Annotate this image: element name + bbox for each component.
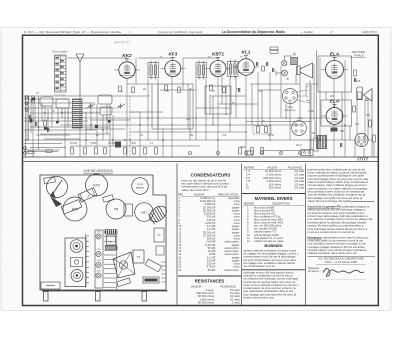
label board	[143, 277, 159, 283]
svg-text:C28: C28	[366, 115, 371, 117]
trimmer A-cal	[132, 178, 149, 195]
svg-text:Prise: Prise	[297, 118, 303, 121]
svg-text:CONDENSATEURS: CONDENSATEURS	[191, 173, 231, 178]
filter cap can 1	[65, 238, 86, 287]
svg-text:electrochim.: electrochim.	[224, 268, 239, 272]
switch S1 contact table (Commutateur)	[52, 50, 68, 97]
terminal ANT	[25, 96, 28, 99]
small component blobs left	[24, 84, 226, 154]
svg-text:HP: HP	[286, 79, 290, 81]
IF transformer T3	[228, 60, 239, 79]
resistor R2	[32, 96, 35, 102]
wire speaker feed	[314, 50, 317, 135]
svg-text:valeur fils par bobinage décou: valeur fils par bobinage découplag	[308, 199, 352, 203]
wire lamp feed	[276, 56, 292, 76]
loudspeaker frame below	[113, 252, 135, 278]
svg-text:1408-CH-5: 1408-CH-5	[362, 30, 377, 34]
svg-text:Commutateur: Commutateur	[52, 50, 68, 54]
rectifier tube V7	[355, 133, 368, 146]
chassis outline	[40, 175, 166, 290]
side ticks	[161, 262, 166, 282]
terminal strip TS2	[86, 234, 90, 288]
coil L4	[100, 107, 112, 115]
svg-text:Imprimerie CHARLES, Argenteuil: Imprimerie CHARLES, Argenteuil	[158, 30, 203, 34]
svg-text:MATERIEL DIVERS: MATERIEL DIVERS	[255, 196, 293, 201]
svg-text:— Cahier: — Cahier	[300, 30, 313, 34]
svg-text:R10: R10	[236, 89, 241, 91]
band switch S2 wafer block	[73, 99, 83, 128]
ground earth symbol	[358, 148, 370, 161]
svg-text:Signature: Signature	[308, 266, 320, 270]
svg-text:C22: C22	[355, 124, 360, 126]
svg-text:VUE DE DESSOUS: VUE DE DESSOUS	[83, 169, 113, 173]
wire bus chassis/B-	[24, 156, 378, 158]
dark pointer	[50, 196, 62, 207]
column divider 2	[241, 164, 243, 306]
svg-text:T3: T3	[137, 255, 141, 259]
tube KBT1	[206, 52, 231, 77]
terminal PU2	[24, 152, 27, 155]
AVC dashed line	[129, 96, 131, 157]
resistor R23	[353, 106, 356, 112]
coil can rotated 2	[61, 200, 82, 215]
svg-text:10: 10	[246, 186, 250, 190]
wire routing y132	[130, 131, 246, 133]
svg-text:SECT.: SECT.	[296, 145, 303, 147]
svg-text:REPERE: REPERE	[244, 203, 255, 206]
dial lamp LP2	[282, 70, 288, 76]
wire routing y125	[60, 124, 300, 126]
coupling capacitor C15	[255, 62, 257, 66]
shield box detector	[205, 86, 231, 114]
svg-text:VALEUR: VALEUR	[191, 285, 202, 289]
resistor value rows	[196, 288, 239, 304]
svg-text:valeur des écran fils h: valeur des écran fils h	[182, 188, 210, 192]
tube KF3	[160, 52, 185, 77]
paragraph end rule	[352, 200, 374, 202]
verification block	[308, 256, 376, 258]
column divider 3	[305, 164, 307, 306]
svg-text:500M: 500M	[268, 135, 274, 137]
terminal CADRE	[25, 109, 28, 112]
svg-text:gri.: gri.	[306, 89, 309, 92]
svg-text:du secrét. :: du secrét. :	[308, 269, 321, 273]
svg-text:Paris — le 15 Janvier 1938: Paris — le 15 Janvier 1938	[325, 260, 357, 264]
rule	[242, 193, 305, 195]
excitation coil HP2	[357, 87, 363, 100]
tube KK2	[114, 53, 139, 78]
svg-text:sur condensateur sont éc: sur condensateur sont éc	[244, 264, 276, 268]
svg-text:500 ohms: 500 ohms	[269, 186, 282, 190]
materiel rows	[247, 205, 284, 243]
svg-text:La Documentation du Dépanneur-: La Documentation du Dépanneur-Radio	[222, 30, 285, 34]
svg-text:1/2 watt: 1/2 watt	[294, 186, 304, 190]
capacitor block hatched 2	[106, 246, 118, 250]
capacitor C30	[339, 143, 341, 147]
svg-text:KF3: KF3	[168, 52, 177, 57]
antenna	[76, 54, 84, 96]
capacitor C1	[28, 115, 30, 119]
resistor R21	[373, 135, 376, 142]
bypass capacitor C18	[237, 88, 239, 92]
svg-text:SUPER 57: SUPER 57	[114, 41, 131, 45]
svg-text:DESCRIPTION: DESCRIPTION	[272, 203, 289, 206]
capacitor C11 block	[246, 151, 253, 155]
base protrusion left	[41, 282, 60, 289]
svg-text:tension haut-parleur que: tension haut-parleur que	[244, 295, 275, 299]
loudspeaker HP2	[364, 89, 373, 102]
socket KF3 below	[86, 174, 108, 196]
wire routing y146	[70, 145, 200, 147]
svg-text:KL1: KL1	[242, 50, 251, 55]
rule	[242, 269, 305, 271]
svg-text:20 000 ohms: 20 000 ohms	[198, 300, 215, 304]
power transformer TR	[317, 136, 327, 149]
tube KL1	[233, 50, 259, 76]
wire AVC line	[24, 95, 150, 97]
side rect B	[156, 246, 164, 255]
svg-text:10MF: 10MF	[240, 147, 246, 149]
variable capacitor CV1	[86, 104, 95, 109]
svg-text:R15: R15	[330, 96, 335, 98]
mounting strip with grommets	[95, 230, 103, 288]
wire mesh left section	[24, 96, 130, 157]
svg-text:KBT1: KBT1	[212, 52, 224, 57]
chassis foot 3	[142, 292, 147, 302]
svg-text:VU, TECHNICIEN DU LABORATOIRE: VU, TECHNICIEN DU LABORATOIRE	[318, 257, 363, 261]
coil L1	[40, 97, 53, 106]
small rect top-left chassis	[44, 176, 56, 183]
bias cell under ELA2	[331, 128, 338, 132]
tube ELA	[322, 99, 348, 125]
wire bus filament	[24, 161, 378, 163]
tone capacitor C17	[271, 68, 273, 72]
screen resistor R5	[119, 86, 122, 92]
capacitor value rows	[179, 196, 240, 272]
svg-text:TR: TR	[114, 208, 119, 212]
svg-text:8MF: 8MF	[340, 131, 345, 133]
output stage box 2	[321, 100, 352, 126]
svg-text:RESISTANCES: RESISTANCES	[195, 279, 225, 284]
svg-text:25 MF: 25 MF	[208, 268, 216, 272]
wire routing y140	[24, 139, 372, 141]
socket SO1 (vu de dessous)	[282, 88, 311, 112]
svg-text:0,1MF: 0,1MF	[90, 143, 97, 145]
terminal PU1	[24, 147, 27, 150]
screen resistor R8	[165, 85, 168, 91]
svg-text:BOBINES: BOBINES	[264, 243, 283, 248]
capacitor C3	[46, 128, 48, 132]
svg-text:bob.: bob.	[306, 100, 311, 102]
dial lamp LP1	[282, 61, 287, 66]
socket TR below	[106, 199, 126, 219]
svg-text:2.000: 2.000	[308, 111, 314, 113]
loudspeaker HP1	[297, 63, 313, 78]
resistor R20	[369, 120, 372, 127]
IF transformer T1	[148, 61, 159, 80]
svg-text:R18: R18	[356, 81, 361, 83]
variable capacitor CV2	[116, 104, 125, 109]
svg-text:KF3: KF3	[93, 184, 99, 188]
svg-text:12: 12	[247, 239, 250, 243]
svg-text:(dessous): (dessous)	[285, 109, 296, 112]
wire routing y118	[24, 117, 330, 119]
resistor group above B- bus	[71, 148, 264, 155]
shield box IF strip	[152, 84, 193, 129]
cathode resistor R6	[132, 87, 135, 93]
resistor R3	[44, 120, 47, 126]
coil L2	[56, 99, 69, 108]
svg-text:CV: CV	[118, 107, 122, 109]
potentiometer P1 volume	[253, 126, 271, 135]
svg-text:C12: C12	[222, 135, 227, 137]
IF can LS rotated	[78, 188, 97, 202]
svg-text:5.000: 5.000	[130, 143, 136, 145]
wire grid-cap bus	[67, 57, 218, 59]
capacitor C2	[34, 122, 36, 126]
svg-text:AVC: AVC	[186, 118, 191, 121]
resistor R22	[354, 70, 357, 76]
column divider 1	[176, 164, 178, 306]
svg-text:25.000: 25.000	[108, 143, 116, 145]
terminal TERRE	[25, 102, 28, 105]
terminal strip TS	[104, 230, 117, 290]
svg-text:nous des courant écran le cour: nous des courant écran le courant le	[308, 230, 355, 234]
svg-text:R.-Pch. — 112, Boulevard Richa: R.-Pch. — 112, Boulevard Richard, Paris,…	[24, 30, 122, 34]
svg-text:châssis excitation dans cadre: châssis excitation dans cadre terre terr	[308, 251, 358, 255]
svg-text:FINALE: FINALE	[354, 53, 364, 57]
scan speckle (decorative)	[4, 29, 388, 309]
svg-text:aligneur: aligneur	[136, 188, 144, 190]
svg-text:pl.: pl.	[306, 96, 309, 98]
cathode resistor R9b	[178, 87, 181, 93]
svg-text:T.P.: T.P.	[108, 240, 112, 244]
dial drive parts	[270, 47, 278, 53]
svg-text:ELA: ELA	[330, 99, 339, 104]
resistor rotated r1	[117, 278, 131, 287]
svg-text:1 watt: 1 watt	[232, 300, 240, 304]
capacitor block small	[124, 204, 133, 216]
wire mesh mid section	[127, 58, 374, 157]
coil L3	[98, 95, 112, 104]
svg-text:50.000: 50.000	[70, 143, 78, 145]
socket KK2 below	[63, 197, 87, 221]
tuning capacitor CV vanes	[147, 203, 170, 225]
IF transformer T2	[196, 61, 207, 80]
grid resistor R12	[262, 66, 265, 71]
resistor table rows	[246, 169, 304, 190]
header imprint line	[24, 30, 377, 34]
output stage box 1	[318, 56, 352, 92]
coil rotated r2	[145, 259, 161, 272]
junction dots routing	[129, 106, 345, 140]
cathode resistor R11b	[223, 87, 226, 93]
chassis base plate	[42, 290, 168, 292]
rule	[178, 275, 241, 277]
svg-text:exc.: exc.	[306, 86, 310, 88]
svg-text:A cal: A cal	[136, 183, 143, 186]
chassis foot 2	[96, 292, 101, 302]
tuning gang CV dashed link	[60, 111, 140, 113]
signature squiggle	[323, 269, 364, 277]
volume control shaft	[47, 177, 68, 200]
component value labels	[36, 57, 371, 149]
node markers	[188, 151, 301, 155]
socket SO2 (prise casque)	[292, 118, 307, 136]
mains plug SECTEUR	[301, 150, 313, 156]
junction dots left	[26, 112, 163, 140]
wire mesh lower-left	[24, 84, 226, 152]
socket KBT1 below	[135, 203, 154, 222]
coupling capacitor C16	[265, 62, 267, 66]
svg-text:KK2: KK2	[122, 53, 132, 58]
resistor board small	[103, 195, 114, 202]
wire vertical drops	[27, 58, 372, 157]
screen resistor R11	[210, 85, 213, 91]
resistor R26	[46, 150, 52, 153]
white rect component	[107, 235, 116, 245]
resistor R1	[26, 96, 29, 102]
capacitor C10 block	[115, 142, 121, 148]
output trafo box below	[133, 250, 144, 263]
output transformer TS1	[291, 53, 298, 65]
fuse F1	[314, 138, 319, 151]
capacitor block hatched 1	[105, 230, 117, 235]
resistor R25	[28, 151, 34, 154]
tube ELA	[321, 52, 348, 79]
capacitor C24	[353, 78, 355, 82]
outer frame	[23, 35, 379, 305]
svg-text:C14: C14	[258, 91, 263, 93]
chassis foot 1	[44, 292, 49, 302]
side rect A	[154, 228, 164, 242]
svg-text:TR.: TR.	[312, 132, 316, 135]
